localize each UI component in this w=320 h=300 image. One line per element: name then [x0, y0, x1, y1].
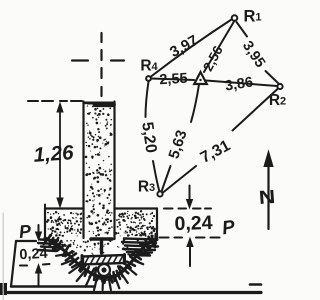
svg-text:0,24: 0,24 — [19, 246, 48, 263]
svg-text:2,55: 2,55 — [159, 71, 188, 88]
svg-text:N: N — [258, 187, 276, 209]
svg-text:0,24: 0,24 — [174, 212, 213, 235]
svg-text:1,26: 1,26 — [33, 141, 75, 167]
